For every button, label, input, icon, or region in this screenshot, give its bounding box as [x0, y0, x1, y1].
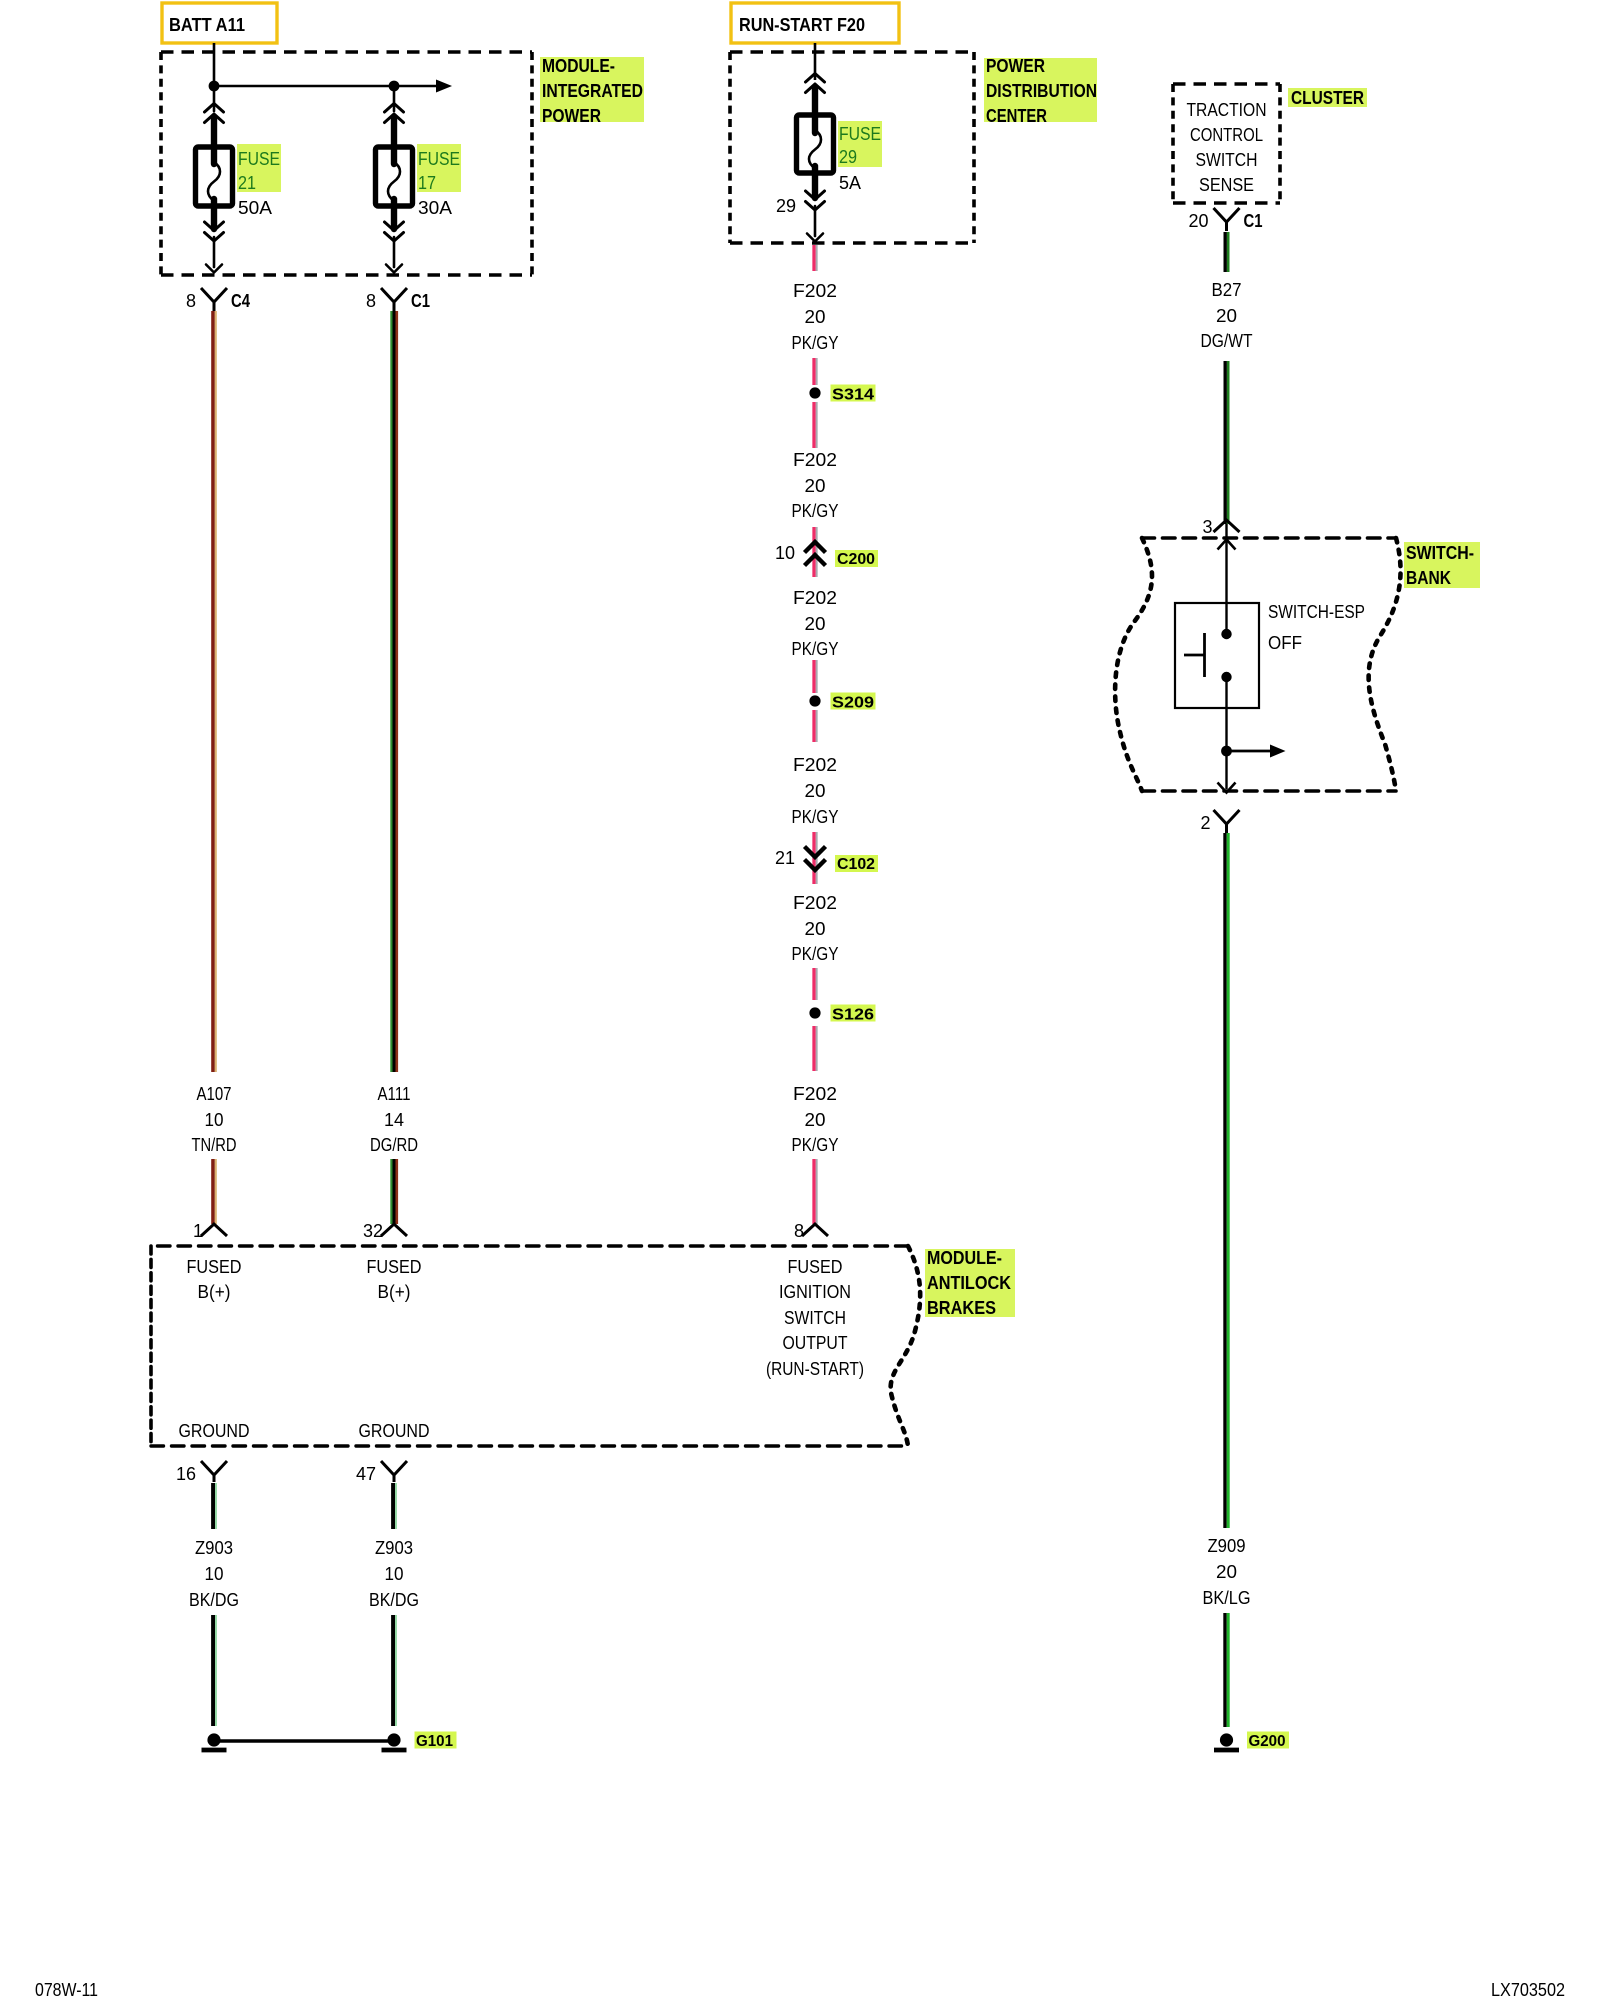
fuse F21: [196, 86, 233, 273]
svg-text:FUSED: FUSED: [187, 1257, 242, 1277]
svg-text:C1: C1: [411, 291, 430, 311]
svg-text:MODULE-: MODULE-: [927, 1248, 1002, 1268]
svg-text:A111: A111: [378, 1084, 411, 1104]
label Z903 10 BK/DG (left): [189, 1538, 239, 1610]
fuse F29: [797, 74, 834, 242]
svg-text:BANK: BANK: [1406, 568, 1451, 588]
label FUSED B(+) (pin 1): [187, 1257, 242, 1302]
label FUSED IGNITION SWITCH OUTPUT (RUN-START): [766, 1257, 864, 1379]
label F202 20 PK/GY (4): [792, 755, 839, 827]
label FUSE 17: [417, 144, 461, 193]
fuse F17: [376, 86, 413, 273]
svg-text:A107: A107: [197, 1084, 232, 1104]
svg-text:BK/LG: BK/LG: [1203, 1588, 1251, 1608]
svg-text:MODULE-: MODULE-: [542, 56, 615, 76]
svg-text:C102: C102: [837, 856, 875, 873]
wire A111 DG/RD: [391, 311, 396, 1224]
label MODULE-ANTILOCK BRAKES: [925, 1248, 1015, 1318]
svg-text:20: 20: [805, 919, 826, 939]
svg-text:30A: 30A: [418, 198, 452, 218]
ground link wire: [214, 1739, 394, 1742]
exit arrow at bottom edge: [1218, 783, 1236, 793]
svg-text:10: 10: [385, 1564, 404, 1584]
svg-text:GROUND: GROUND: [359, 1421, 430, 1441]
svg-text:8: 8: [794, 1221, 804, 1241]
svg-text:OFF: OFF: [1268, 633, 1302, 653]
svg-text:SWITCH: SWITCH: [1196, 150, 1258, 170]
pin 32 connector (ABS): [381, 1224, 407, 1236]
svg-text:TRACTION: TRACTION: [1187, 100, 1267, 120]
label FUSE 21: [237, 144, 281, 193]
label MODULE-INTEGRATED POWER: [540, 56, 644, 126]
svg-text:Z903: Z903: [195, 1538, 233, 1558]
svg-text:G200: G200: [1249, 1733, 1286, 1750]
switch actuator symbol: [1184, 633, 1205, 677]
svg-text:B(+): B(+): [378, 1282, 411, 1302]
svg-text:20: 20: [1216, 306, 1237, 326]
svg-text:29: 29: [839, 147, 857, 167]
module-integrated power box outline: [161, 52, 532, 275]
label Z909 20 BK/LG: [1203, 1536, 1251, 1608]
svg-text:Z909: Z909: [1208, 1536, 1246, 1556]
svg-text:BRAKES: BRAKES: [927, 1298, 996, 1318]
svg-text:50A: 50A: [238, 198, 272, 218]
splice S209: [809, 695, 820, 706]
svg-text:S209: S209: [832, 695, 874, 712]
svg-text:PK/GY: PK/GY: [792, 807, 839, 827]
label A111 14 DG/RD: [370, 1084, 418, 1155]
label B27 20 DG/WT: [1201, 280, 1253, 351]
svg-text:ANTILOCK: ANTILOCK: [927, 1273, 1011, 1293]
label CLUSTER: [1288, 88, 1367, 108]
pin 3 connector (switch-bank): [1214, 520, 1240, 532]
svg-text:PK/GY: PK/GY: [792, 639, 839, 659]
svg-text:DISTRIBUTION: DISTRIBUTION: [986, 81, 1097, 101]
svg-text:F202: F202: [793, 893, 837, 913]
power source label BATT A11: [162, 3, 277, 43]
cluster box outline: [1173, 84, 1280, 203]
svg-text:B27: B27: [1212, 280, 1242, 300]
svg-text:8: 8: [186, 291, 196, 311]
ground G200: [1220, 1733, 1233, 1746]
svg-text:Z903: Z903: [375, 1538, 413, 1558]
junction node at fuse 21: [209, 81, 220, 92]
svg-text:S126: S126: [832, 1007, 874, 1024]
wire Z903 BK/DG (left): [213, 1483, 216, 1726]
svg-text:20: 20: [805, 1110, 826, 1130]
pin 8 connector (ABS): [802, 1224, 828, 1236]
label F202 20 PK/GY (2): [792, 450, 839, 521]
svg-text:FUSE: FUSE: [418, 149, 460, 169]
svg-text:PK/GY: PK/GY: [792, 501, 839, 521]
power distribution center box outline: [730, 52, 974, 243]
svg-text:F202: F202: [793, 450, 837, 470]
svg-text:LX703502: LX703502: [1491, 1980, 1565, 2000]
label POWER DISTRIBUTION CENTER: [984, 56, 1097, 126]
svg-text:10: 10: [205, 1564, 224, 1584]
svg-text:14: 14: [384, 1110, 404, 1130]
label SWITCH-BANK: [1404, 542, 1480, 588]
wire A107 TN/RD: [213, 311, 216, 1224]
svg-text:FUSED: FUSED: [788, 1257, 843, 1277]
svg-text:F202: F202: [793, 755, 837, 775]
wire B27 DG/WT: [1225, 232, 1228, 524]
svg-text:PK/GY: PK/GY: [792, 1135, 839, 1155]
svg-text:G101: G101: [416, 1733, 453, 1750]
label F202 20 PK/GY (5): [792, 893, 839, 964]
label F202 20 PK/GY (6): [792, 1084, 839, 1155]
svg-text:POWER: POWER: [986, 56, 1045, 76]
wire from BATT A11: [213, 43, 216, 86]
svg-text:PK/GY: PK/GY: [792, 944, 839, 964]
svg-text:PK/GY: PK/GY: [792, 333, 839, 353]
svg-text:BATT A11: BATT A11: [169, 15, 245, 35]
label S314: [831, 385, 876, 404]
svg-text:INTEGRATED: INTEGRATED: [542, 81, 643, 101]
svg-text:32: 32: [363, 1221, 383, 1241]
svg-text:10: 10: [205, 1110, 224, 1130]
svg-text:8: 8: [366, 291, 376, 311]
svg-text:OUTPUT: OUTPUT: [783, 1333, 848, 1353]
svg-text:21: 21: [238, 173, 256, 193]
svg-text:20: 20: [1188, 211, 1208, 231]
svg-text:5A: 5A: [839, 173, 861, 193]
svg-text:17: 17: [418, 173, 436, 193]
svg-text:DG/WT: DG/WT: [1201, 331, 1253, 351]
svg-text:078W-11: 078W-11: [35, 1980, 98, 2000]
label F202 20 PK/GY (3): [792, 588, 839, 659]
svg-text:1: 1: [193, 1221, 203, 1241]
wire from RUN-START F20: [814, 43, 817, 80]
label C200: [835, 550, 878, 568]
svg-text:IGNITION: IGNITION: [779, 1282, 851, 1302]
svg-text:RUN-START F20: RUN-START F20: [739, 15, 865, 35]
svg-text:10: 10: [775, 543, 795, 563]
label Z903 10 BK/DG (right): [369, 1538, 419, 1610]
svg-text:F202: F202: [793, 1084, 837, 1104]
svg-text:FUSED: FUSED: [367, 1257, 422, 1277]
svg-text:B(+): B(+): [198, 1282, 231, 1302]
svg-text:20: 20: [805, 307, 826, 327]
power source label RUN-START F20: [731, 3, 899, 43]
junction node at fuse 17: [389, 81, 400, 92]
svg-text:20: 20: [805, 476, 826, 496]
label S126: [831, 1005, 876, 1024]
splice S314: [809, 387, 820, 398]
label TRACTION CONTROL SWITCH SENSE: [1187, 100, 1267, 195]
svg-text:(RUN-START): (RUN-START): [766, 1359, 864, 1379]
label A107 10 TN/RD: [192, 1084, 237, 1155]
wire into switch with entry arrow: [1225, 524, 1227, 634]
svg-text:20: 20: [1216, 1562, 1237, 1582]
connector C200 pin 10: [805, 542, 826, 566]
svg-text:POWER: POWER: [542, 106, 601, 126]
svg-text:BK/DG: BK/DG: [369, 1590, 419, 1610]
connector C102 pin 21: [805, 847, 826, 871]
svg-text:DG/RD: DG/RD: [370, 1135, 418, 1155]
svg-text:CENTER: CENTER: [986, 106, 1047, 126]
svg-text:TN/RD: TN/RD: [192, 1135, 237, 1155]
switch SWITCH-ESP OFF: [1175, 603, 1259, 708]
pin 16 connector (ABS bottom): [201, 1461, 227, 1482]
svg-text:SWITCH-ESP: SWITCH-ESP: [1268, 602, 1365, 622]
pin 1 connector (ABS): [201, 1224, 227, 1236]
svg-text:C1: C1: [1244, 211, 1263, 231]
svg-text:FUSE: FUSE: [839, 124, 881, 144]
svg-text:3: 3: [1202, 517, 1212, 537]
svg-text:16: 16: [176, 1464, 196, 1484]
svg-text:21: 21: [775, 848, 795, 868]
svg-text:S314: S314: [832, 387, 874, 404]
label FUSE 29: [838, 121, 882, 167]
label F202 20 PK/GY (1): [792, 281, 839, 353]
wire F202 PK/GY: [814, 245, 817, 1224]
svg-text:47: 47: [356, 1464, 376, 1484]
wire Z903 BK/DG (right): [393, 1483, 396, 1726]
wire below switch: [1225, 677, 1227, 789]
svg-text:2: 2: [1200, 813, 1210, 833]
module-antilock brakes box outline (torn right edge): [151, 1246, 920, 1446]
splice S126: [809, 1007, 820, 1018]
label S209: [831, 693, 876, 712]
connector C1 pin 8: [381, 288, 407, 311]
junction with continuation arrow: [1221, 746, 1232, 757]
svg-text:SWITCH: SWITCH: [784, 1308, 846, 1328]
svg-text:GROUND: GROUND: [179, 1421, 250, 1441]
svg-text:CONTROL: CONTROL: [1190, 125, 1263, 145]
wire Z909 BK/LG: [1225, 833, 1228, 1727]
svg-text:SWITCH-: SWITCH-: [1406, 543, 1474, 563]
svg-text:20: 20: [805, 781, 826, 801]
svg-text:C200: C200: [837, 551, 875, 568]
svg-text:BK/DG: BK/DG: [189, 1590, 239, 1610]
pin 2 connector (switch-bank): [1214, 810, 1240, 833]
svg-text:F202: F202: [793, 588, 837, 608]
svg-text:29: 29: [776, 196, 796, 216]
ground G101 (right): [387, 1733, 400, 1746]
pin 47 connector (ABS bottom): [381, 1461, 407, 1482]
svg-text:C4: C4: [231, 291, 250, 311]
svg-text:CLUSTER: CLUSTER: [1291, 88, 1364, 108]
connector C4 pin 8: [201, 288, 227, 311]
svg-text:F202: F202: [793, 281, 837, 301]
svg-text:SENSE: SENSE: [1199, 175, 1254, 195]
connector C1 pin 20 (cluster): [1214, 208, 1240, 231]
svg-text:20: 20: [805, 614, 826, 634]
label FUSED B(+) (pin 32): [367, 1257, 422, 1302]
ground G101 (left): [207, 1733, 220, 1746]
bus wire to fuse 17 with continuation arrow: [214, 85, 436, 88]
switch-bank box outline (torn edges): [1115, 538, 1400, 791]
label C102: [835, 855, 878, 873]
svg-text:FUSE: FUSE: [238, 149, 280, 169]
